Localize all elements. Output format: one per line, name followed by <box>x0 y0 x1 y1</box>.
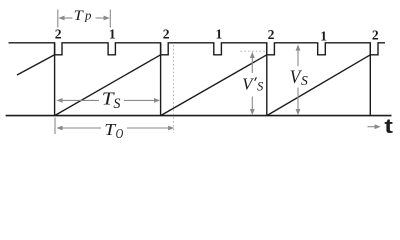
sawtooth ramp 3 <box>267 55 371 116</box>
sawtooth ramp 0 (partial) <box>17 55 55 75</box>
dimension T_P arrow <box>58 16 110 21</box>
baseline (zero level) <box>6 115 392 117</box>
dotted guide horizontal at sawtooth peak level V'_S <box>241 50 267 52</box>
sawtooth retrace 3 <box>266 43 268 116</box>
dimension T_S arrow <box>56 98 160 103</box>
sawtooth retrace 1 <box>54 43 56 116</box>
sawtooth ramp 2 <box>161 55 267 116</box>
svg-text:V: V <box>242 74 254 93</box>
sawtooth retrace 4 <box>369 43 371 116</box>
svg-text:T: T <box>74 8 85 24</box>
svg-text:S: S <box>257 80 264 94</box>
svg-text:2: 2 <box>268 27 275 42</box>
sawtooth retrace 2 <box>160 43 162 116</box>
dimension V'_S arrow <box>250 52 255 115</box>
sawtooth ramp 1 <box>55 55 161 116</box>
dimension T_P extension line right <box>109 10 111 28</box>
svg-text:S: S <box>301 73 308 88</box>
svg-text:p: p <box>84 8 92 22</box>
dimension T_P extension line left <box>57 10 59 28</box>
svg-text:S: S <box>113 96 120 112</box>
dimension T_O arrow <box>56 126 174 131</box>
svg-text:1: 1 <box>216 27 223 42</box>
svg-text:2: 2 <box>55 27 62 42</box>
svg-text:2: 2 <box>163 27 170 42</box>
svg-text:1: 1 <box>109 27 116 42</box>
dimension T_O extension line left <box>54 118 56 135</box>
dotted guide vertical at end of T_O <box>173 45 175 133</box>
svg-text:2: 2 <box>372 27 379 42</box>
time-axis arrow <box>368 124 381 129</box>
prime mark of V'_S <box>255 77 257 81</box>
svg-text:O: O <box>116 126 124 141</box>
svg-text:1: 1 <box>320 29 327 44</box>
dimension V_S arrow <box>296 44 301 115</box>
svg-text:t: t <box>384 115 393 138</box>
pulse-train trace (top line with negative sync notches) <box>9 43 386 55</box>
